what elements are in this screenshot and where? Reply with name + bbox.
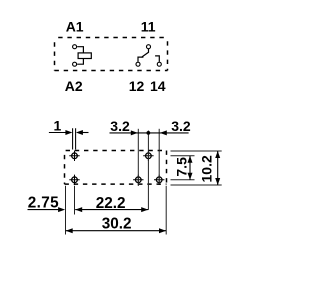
coil terminal A2 circle <box>73 62 77 66</box>
svg-text:22.2: 22.2 <box>96 195 126 212</box>
dim 2.75 leader line <box>28 209 60 211</box>
dim 7.5 arrow up <box>188 156 193 163</box>
svg-text:7.5: 7.5 <box>174 157 190 177</box>
hole 12 (bottom-middle) <box>133 175 143 185</box>
svg-text:3.2: 3.2 <box>110 118 130 134</box>
hole A2 (bottom-left) <box>69 175 79 185</box>
dim 1 right tail line <box>83 132 89 134</box>
footprint dashed body outline <box>65 151 167 185</box>
dim 3.2 right arrow <box>160 130 167 135</box>
dim 1 leader line <box>49 132 66 134</box>
extension line body right edge (down) <box>165 186 167 235</box>
hole A1 (top-left) <box>69 151 79 161</box>
dim 3.2 junction dot <box>146 131 150 135</box>
coil terminal A1 circle <box>73 45 77 49</box>
extension line col 12 <box>137 129 139 186</box>
dim 7.5 arrow down <box>188 173 193 180</box>
svg-text:2.75: 2.75 <box>28 194 59 211</box>
dim 1 arrow right <box>65 130 72 135</box>
contact NO lead wire to 14 <box>155 56 159 62</box>
extension line body left edge (down) <box>65 186 67 235</box>
svg-text:14: 14 <box>150 78 166 94</box>
dim 3.2 shared dimension line <box>110 132 189 134</box>
dim 1 right tail arrow left <box>76 130 83 135</box>
contact NC lead wire to 12 <box>138 57 143 62</box>
extension line pin width pair (dim 1) <box>73 128 76 149</box>
svg-text:10.2: 10.2 <box>198 155 214 182</box>
svg-text:1: 1 <box>54 117 62 133</box>
dim 22.2 arrow left <box>75 207 82 212</box>
hole 14 (bottom-right) <box>154 175 164 185</box>
extension lines body top/bottom (dim 10.2) <box>171 151 222 185</box>
svg-text:A1: A1 <box>66 18 84 34</box>
dim 3.2 left arrow <box>131 130 138 135</box>
extension line col 14 <box>158 129 160 184</box>
coil K1 box <box>78 53 91 59</box>
contact terminal 12 circle <box>136 62 140 66</box>
dim 2.75 arrow <box>58 207 65 212</box>
dim 22.2 line <box>75 209 148 211</box>
dim 7.5 line <box>189 156 191 180</box>
relay schematic dashed enclosure <box>55 38 168 71</box>
svg-text:30.2: 30.2 <box>102 215 132 232</box>
coil wire <box>77 47 83 64</box>
extension line col 11 <box>147 131 149 210</box>
dim 30.2 line <box>66 230 166 232</box>
svg-text:A2: A2 <box>65 78 83 94</box>
svg-text:12: 12 <box>129 78 145 94</box>
svg-text:3.2: 3.2 <box>171 118 191 134</box>
contact terminal 14 circle <box>157 62 161 66</box>
extension line col A2 (down) <box>74 186 76 215</box>
extension lines hole rows (dim 7.5) <box>171 156 195 180</box>
contact terminal 11 circle <box>147 45 151 49</box>
dim 10.2 line <box>217 151 219 185</box>
dim 10.2 arrow down <box>215 178 220 185</box>
dim 22.2 arrow right <box>141 207 148 212</box>
dim 30.2 arrow left <box>66 228 73 233</box>
contact armature wire (11 common, resting toward 12) <box>142 49 149 58</box>
svg-text:11: 11 <box>141 18 156 34</box>
hole 11 (top-right) <box>143 151 153 161</box>
dim 30.2 arrow right <box>159 228 166 233</box>
dim 10.2 arrow up <box>215 151 220 158</box>
